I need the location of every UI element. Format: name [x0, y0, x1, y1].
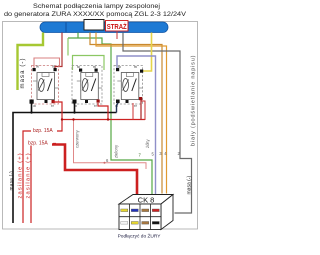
svg-text:STRAŻ: STRAŻ [107, 22, 127, 31]
U3 pins [116, 68, 119, 71]
svg-text:7: 7 [139, 153, 142, 158]
svg-text:zielony: zielony [114, 144, 119, 158]
svg-text:86: 86 [36, 64, 40, 68]
wire orange 1 (pin3) [90, 33, 162, 194]
junction dots [61, 118, 63, 120]
U2 coil [82, 79, 88, 92]
U3 coil [123, 79, 129, 92]
U2 pin leads [77, 80, 81, 82]
svg-text:do generatora ZURA XXXX/XX pom: do generatora ZURA XXXX/XX pomocą ZGL 2-… [4, 11, 186, 18]
red wire module3 bottom-right [140, 100, 142, 120]
module1 pink bracket [34, 58, 60, 69]
red rect module3 bottom [133, 101, 145, 120]
svg-text:zasilanie (+): zasilanie (+) [18, 152, 24, 198]
U3 dashed enclosure [114, 66, 143, 105]
svg-text:zasilanie (+): zasilanie (+) [26, 152, 32, 198]
fuse 2 wire thin part [30, 144, 32, 224]
wire gray masa (pin2) [123, 33, 192, 214]
svg-text:bzp. 15A: bzp. 15A [33, 128, 53, 134]
right face [161, 195, 173, 230]
svg-text:masa (-): masa (-) [187, 176, 193, 195]
U1 pins [33, 68, 36, 71]
U2 pins [79, 69, 82, 72]
wire lt-green bracket module2 + feed [68, 38, 104, 70]
cell bars row1 [121, 209, 128, 212]
svg-text:87: 87 [94, 104, 98, 108]
svg-text:biały (podświetlanie napisu): biały (podświetlanie napisu) [191, 55, 197, 146]
thick red wire fuse2 to CK8 (pin6) [52, 145, 137, 197]
svg-text:87: 87 [51, 104, 55, 108]
red wire module2 to bus [98, 103, 108, 120]
wire dark red from bar to module1 [55, 33, 62, 70]
CK8 connector block [119, 195, 173, 230]
U1 contact [48, 79, 53, 92]
svg-text:87: 87 [134, 104, 138, 108]
wire red stub under STRAZ [116, 31, 118, 39]
U3 contact [132, 79, 137, 92]
U1 dashed enclosure [32, 66, 59, 105]
svg-text:86: 86 [118, 65, 122, 69]
svg-text:85: 85 [93, 65, 97, 69]
STRAZ box [106, 21, 129, 32]
svg-text:85: 85 [134, 65, 138, 69]
U1 relay body [37, 73, 55, 100]
wire masa yellow-green from bar [18, 33, 44, 91]
svg-text:30: 30 [33, 104, 37, 108]
U1 coil [38, 79, 44, 92]
fuse 1 wire [23, 120, 62, 224]
wire yellow to module3 [143, 33, 152, 72]
wire purple bracket module3 to CK8 (pin5) [117, 56, 156, 194]
relay module U3 [114, 65, 143, 108]
U1 pin leads [33, 80, 37, 82]
svg-text:CK 8: CK 8 [138, 196, 155, 205]
sign white box [84, 20, 104, 31]
light bar (lamp assembly) [40, 22, 168, 33]
U2 contact [91, 79, 96, 92]
navy wire module3 bottom-left [117, 103, 119, 113]
svg-text:masa (-): masa (-) [20, 57, 26, 88]
svg-text:żółty: żółty [145, 138, 150, 148]
red wire module1 to bus [53, 102, 62, 120]
svg-text:Podłączyć do ŻURY: Podłączyć do ŻURY [118, 233, 162, 240]
U3 relay body [121, 73, 139, 100]
red bus horizontal [62, 119, 145, 121]
top face [119, 195, 173, 205]
svg-text:5: 5 [152, 152, 155, 157]
svg-text:85: 85 [52, 64, 56, 68]
svg-text:bzp. 15A: bzp. 15A [28, 141, 48, 147]
U2 dashed enclosure [72, 66, 102, 105]
fuse 1 label [31, 126, 57, 133]
front face [119, 204, 161, 230]
U2 relay body [81, 73, 99, 100]
svg-text:czerwony: czerwony [75, 129, 80, 148]
U3 pin leads [117, 80, 121, 82]
black ground bus [13, 104, 117, 224]
svg-text:masa (-): masa (-) [9, 171, 15, 191]
cell grid [119, 216, 161, 218]
thin pink wire red bus to CK8 [74, 120, 147, 170]
svg-text:86: 86 [77, 65, 81, 69]
fuse 2 label [27, 139, 53, 146]
cell bars row2 [121, 222, 128, 225]
wire orange 2 (pin4) [96, 33, 167, 194]
svg-text:Schemat podłączenia lampy zesp: Schemat podłączenia lampy zespolonej [33, 3, 161, 10]
bar segment divider [65, 22, 67, 32]
relay module U2 [72, 65, 102, 108]
relay module U1 [30, 64, 59, 108]
wire green (pin7) from bar [68, 33, 152, 195]
